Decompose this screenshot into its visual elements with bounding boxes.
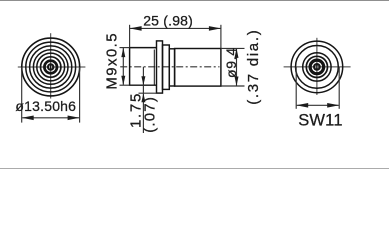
circle ring r14: [303, 53, 331, 81]
nut rect: [163, 45, 170, 89]
nut circle SW11: [296, 46, 339, 89]
dim 25 ext line left: [129, 25, 131, 48]
dim SW11 ext line right: [338, 67, 340, 109]
center pin dot right: [313, 63, 321, 71]
arrowhead down M9: [121, 76, 125, 86]
washer bottom extension line: [139, 92, 157, 94]
threaded neck M9 outline: [130, 48, 157, 86]
dim ø13.50h6 extension line right: [79, 67, 81, 123]
dim 1.75 vertical line: [142, 67, 144, 133]
dim 25 dimension line: [130, 27, 221, 29]
outer circle right view: [291, 41, 343, 93]
outer circle (flange ø13.50): [22, 38, 80, 96]
circle ring r10.6: [306, 56, 327, 77]
arrowhead right SW11: [327, 103, 339, 108]
svg-text:(.07): (.07): [142, 96, 159, 133]
pin slot marks right view: [314, 66, 317, 69]
svg-text:M9x0.5: M9x0.5: [104, 32, 121, 90]
arrowhead up ø9.4: [235, 48, 239, 58]
svg-text:25 (.98): 25 (.98): [143, 12, 193, 28]
dim ø13.50h6 extension line left: [21, 67, 23, 123]
arrowhead up 1.75 (to washer bottom): [141, 93, 145, 102]
step ring rect: [169, 49, 174, 86]
dim M9x0.5 dimension line: [122, 48, 124, 85]
circle ring 4: [33, 50, 68, 85]
body rect: [175, 49, 221, 87]
arrowhead left of 25: [130, 26, 142, 31]
centerline vertical (right view): [316, 38, 318, 95]
arrowhead left SW11: [296, 103, 308, 108]
svg-text:(.37 dia.): (.37 dia.): [245, 29, 262, 105]
arrowhead up M9: [121, 48, 125, 58]
svg-text:ø9.4: ø9.4: [223, 47, 239, 78]
dim 25 ext line right: [220, 25, 222, 48]
dim SW11 ext line left: [295, 67, 297, 109]
dim M9x0.5 ext tick top: [120, 47, 130, 49]
arrowhead right of 25: [209, 26, 221, 31]
circle ring 2: [26, 42, 76, 92]
centerline vertical (left view): [50, 33, 52, 98]
circle ring 3: [30, 46, 72, 88]
arrowhead left of ø13.50h6: [22, 116, 34, 121]
arrowhead down ø9.4: [235, 77, 239, 87]
dim ø13.50h6 dimension line: [22, 117, 79, 119]
circle ring 5: [37, 53, 65, 81]
dashed centerline: [120, 66, 219, 68]
arrowhead right of ø13.50h6: [68, 116, 80, 121]
thread end line: [153, 50, 155, 86]
dim ø9.4 ext line bottom: [221, 85, 245, 87]
thick inner annulus right: [310, 60, 324, 74]
top rule: [0, 0, 389, 2]
circle ring 6: [41, 57, 61, 77]
thick inner annulus: [44, 61, 57, 74]
centerline horizontal (right view): [284, 66, 351, 68]
svg-text:SW11: SW11: [298, 112, 343, 130]
pin slot marks left view: [48, 66, 51, 69]
bottom rule: [0, 168, 389, 170]
arrowhead down 1.75 (to thread bottom): [141, 76, 145, 85]
dim ø9.4 dimension line: [236, 49, 238, 86]
washer rect: [157, 41, 163, 93]
dim SW11 dimension line: [297, 104, 339, 106]
center pin dot: [47, 63, 55, 71]
dim M9x0.5 ext tick bottom: [120, 84, 130, 86]
dim ø9.4 ext line top: [221, 47, 245, 49]
svg-text:ø13.50h6: ø13.50h6: [15, 98, 76, 114]
centerline horizontal (left view): [18, 66, 86, 68]
